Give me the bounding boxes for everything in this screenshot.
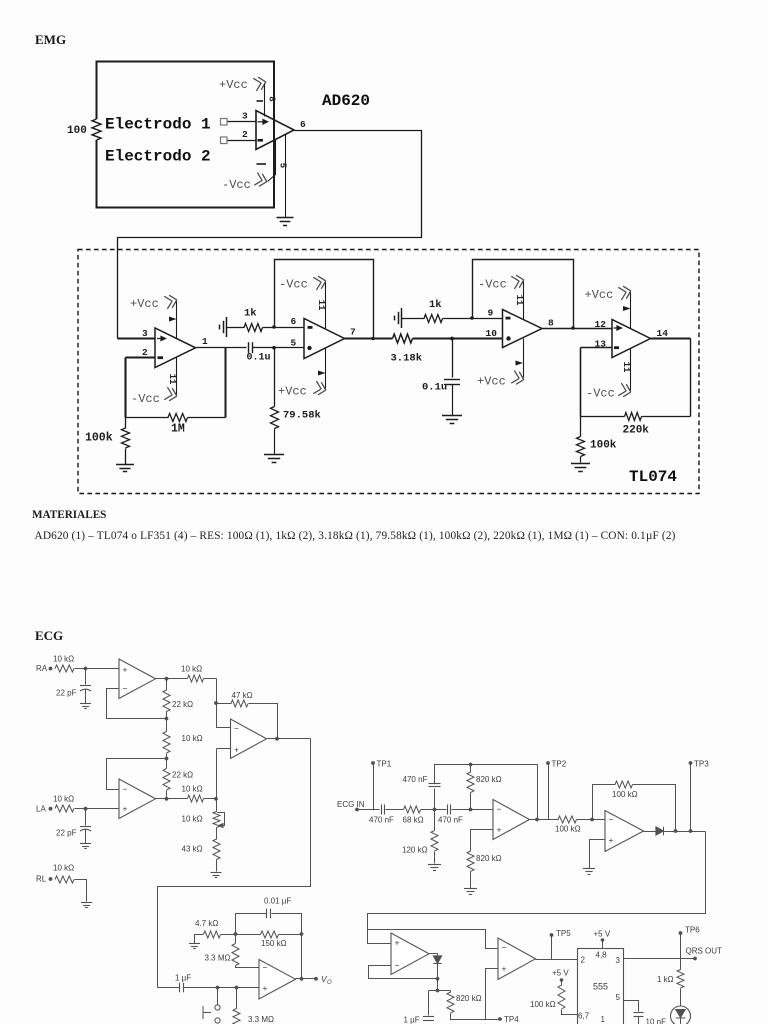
wire ground to 1k U2C [402, 318, 425, 320]
wire cap up to rail [435, 765, 538, 784]
wire feedback to output [633, 785, 676, 832]
svg-text:3.18k: 3.18k [391, 353, 423, 365]
supply pin tick (pin4) [257, 163, 267, 165]
svg-text:555: 555 [593, 982, 608, 992]
svg-text:820 kΩ: 820 kΩ [476, 775, 502, 784]
wire A1 feedback loop [107, 689, 167, 719]
svg-text:10 kΩ: 10 kΩ [53, 655, 74, 664]
svg-text:+: + [609, 835, 614, 845]
svg-text:1M: 1M [171, 423, 185, 436]
svg-text:−: − [123, 684, 128, 694]
op-amp A3 triangle [231, 719, 267, 759]
wire B2 feedback up [593, 785, 616, 820]
wire pin 11 U2C [523, 282, 525, 320]
op-amp U2C triangle [503, 310, 543, 348]
ground (100k) [116, 465, 134, 472]
svg-text:1 µF: 1 µF [175, 974, 191, 983]
resistor 10k RA [55, 665, 74, 672]
wire 1k to pin6 [263, 327, 305, 329]
junction peak node [436, 989, 440, 993]
wire 820k to TP4 row [451, 1014, 501, 1020]
wire pin13 input [581, 347, 613, 349]
ground (0.1u) [442, 416, 462, 424]
svg-text:220k: 220k [623, 425, 650, 437]
resistor 79.58k [271, 407, 279, 429]
svg-text:79.58k: 79.58k [283, 410, 321, 422]
wire to 100k [125, 418, 127, 429]
resistor 43k [213, 839, 220, 860]
svg-text:−: − [234, 724, 239, 734]
wire pin 11 U2A [176, 358, 178, 395]
wire pot branch [216, 799, 218, 812]
switch terminal lower [215, 1018, 220, 1023]
svg-text:+Vcc: +Vcc [278, 385, 307, 399]
op-amp U2D triangle [612, 320, 651, 358]
svg-text:820 kΩ: 820 kΩ [476, 854, 502, 863]
ground (B2) [583, 869, 595, 875]
LED D3 [671, 1006, 691, 1024]
wire chain 2 [166, 754, 168, 769]
op-amp B1 triangle [493, 800, 530, 840]
svg-text:1 kΩ: 1 kΩ [657, 975, 674, 984]
svg-text:11: 11 [316, 300, 326, 311]
wire +5V to 100k [561, 981, 563, 986]
supply chevrons +Vcc U2C [511, 371, 525, 386]
pot wiper arm [217, 813, 225, 826]
supply tick U2D + [623, 306, 631, 311]
wire RL to ground [75, 880, 87, 902]
svg-text:+: + [502, 964, 507, 974]
resistor 120k [431, 831, 438, 852]
wire U2B output [345, 337, 393, 339]
ground (LA filter) [80, 844, 91, 849]
wire pin 11 U2B [325, 283, 327, 330]
svg-text:1k: 1k [244, 308, 257, 320]
resistor 3.3M to inverting [232, 944, 239, 966]
op-amp A4 triangle [259, 960, 296, 1000]
supply tick U2C + [516, 361, 524, 366]
resistor 10k LA [55, 805, 74, 812]
resistor 1k (U2B bias) [244, 324, 263, 332]
svg-text:150 kΩ: 150 kΩ [261, 939, 287, 948]
junction 150k right [300, 932, 304, 936]
svg-text:470 nF: 470 nF [403, 775, 428, 784]
svg-text:-Vcc: -Vcc [131, 392, 160, 406]
wire 1k to pin9 [443, 318, 503, 320]
svg-text:10 kΩ: 10 kΩ [53, 864, 74, 873]
dashed enclosure TL074 board [78, 250, 699, 494]
U2D inverting mark [614, 346, 619, 349]
svg-text:+5 V: +5 V [594, 930, 611, 939]
wire cap to ground LA [85, 830, 87, 844]
junction U2B output/feedback [371, 337, 375, 341]
svg-text:4,8: 4,8 [596, 951, 608, 960]
svg-text:100k: 100k [85, 432, 113, 445]
wire AD620 output to filter stage [118, 131, 422, 339]
wire node to 100k [580, 417, 582, 437]
junction chain upper [165, 717, 169, 721]
wire cap to right rail [272, 914, 302, 935]
wire summing node up [216, 749, 218, 799]
svg-text:+5 V: +5 V [552, 969, 569, 978]
ground (120k) [428, 865, 441, 871]
op-amp U2A triangle [155, 328, 196, 368]
resistor 100 (electrode impedance) [92, 119, 101, 140]
wire chain 3 [166, 791, 168, 800]
svg-text:RL: RL [36, 875, 47, 884]
LA input dot [49, 807, 53, 811]
svg-text:3.3 MΩ: 3.3 MΩ [205, 954, 231, 963]
test point TP5 wire [551, 936, 553, 960]
svg-text:22 pF: 22 pF [56, 829, 77, 838]
junction pin9 node [470, 316, 474, 320]
resistor 10k (A2 out) [188, 795, 204, 802]
wire 100k to ground U2D [580, 457, 582, 463]
svg-text:-Vcc: -Vcc [586, 387, 615, 401]
svg-text:68 kΩ: 68 kΩ [403, 816, 424, 825]
resistor 3.18k series [393, 334, 413, 343]
sideways ground (1k bias U2C) [395, 308, 402, 328]
svg-text:3: 3 [142, 328, 148, 339]
resistor 22k upper [163, 690, 170, 712]
TP5 dot [550, 933, 554, 937]
test point TP3 wire [690, 764, 692, 832]
svg-text:−: − [395, 961, 400, 971]
ground (43k) [211, 873, 222, 878]
svg-text:+Vcc: +Vcc [219, 78, 248, 92]
wire A4 output [296, 978, 317, 980]
svg-text:11: 11 [167, 374, 177, 385]
svg-text:820 kΩ: 820 kΩ [456, 994, 482, 1003]
op-amp U2B triangle [304, 319, 345, 359]
svg-text:Electrodo 2: Electrodo 2 [105, 148, 211, 166]
electrode box outline [97, 62, 275, 208]
svg-text:4.7 kΩ: 4.7 kΩ [195, 919, 218, 928]
wire B2 output to diode [644, 831, 657, 833]
junction highpass node [433, 808, 437, 812]
svg-text:0.01 µF: 0.01 µF [264, 897, 291, 906]
svg-text:2: 2 [142, 347, 148, 358]
resistor 4.7k [204, 931, 221, 938]
svg-text:+: + [263, 983, 268, 993]
svg-text:+: + [395, 938, 400, 948]
wire LA node to cap [85, 809, 87, 826]
svg-text:+: + [123, 804, 128, 814]
wire 10nF down [638, 1017, 640, 1024]
svg-text:6: 6 [300, 119, 306, 130]
wire cap to ground RA [85, 690, 87, 704]
ground (820k bias) [464, 889, 477, 895]
wire ECG IN [358, 809, 380, 811]
U2B inverting mark [308, 326, 313, 329]
svg-text:7: 7 [350, 327, 356, 338]
svg-text:LA: LA [36, 805, 46, 814]
resistor 820k bias [467, 851, 474, 872]
svg-text:−: − [123, 784, 128, 794]
supply chevrons -Vcc U2A [164, 387, 178, 402]
wire B4 + input [486, 969, 499, 1020]
wire 555 pin5 [624, 1001, 639, 1012]
svg-text:TP6: TP6 [685, 926, 700, 935]
op-amp B2 triangle [605, 811, 644, 852]
wire pin2 to amp [228, 140, 257, 142]
svg-text:100 kΩ: 100 kΩ [555, 825, 581, 834]
junction pin6 node [272, 325, 276, 329]
svg-text:+: + [123, 665, 128, 675]
capacitor 470nF input [382, 805, 385, 815]
resistor 3.3M lower [233, 1009, 240, 1024]
svg-text:ECG IN: ECG IN [337, 800, 365, 809]
svg-text:Electrodo 1: Electrodo 1 [105, 116, 211, 134]
wire ground to 4.7k [195, 935, 204, 944]
svg-text:ECG: ECG [35, 628, 63, 643]
wire branch to B4 inverting [368, 930, 499, 949]
svg-text:100 kΩ: 100 kΩ [530, 1000, 556, 1009]
svg-text:1 µF: 1 µF [404, 1016, 420, 1024]
test point TP6 wire [680, 934, 682, 970]
wire 47k to output [249, 704, 278, 739]
svg-text:2: 2 [581, 956, 586, 965]
svg-text:22 kΩ: 22 kΩ [172, 771, 193, 780]
svg-text:TP4: TP4 [504, 1015, 519, 1024]
switch actuator mark [203, 1006, 211, 1019]
svg-text:TP3: TP3 [694, 760, 709, 769]
wire 3.3M upper [235, 935, 237, 944]
svg-text:10 kΩ: 10 kΩ [181, 665, 202, 674]
supply chevrons +Vcc U2B [313, 381, 327, 396]
junction B1 output [535, 818, 539, 822]
junction A1 output [165, 677, 169, 681]
svg-text:8: 8 [267, 96, 277, 101]
svg-text:100: 100 [67, 125, 87, 137]
svg-text:12: 12 [595, 319, 607, 330]
supply chevrons -Vcc AD620 [254, 173, 268, 188]
svg-text:470 nF: 470 nF [438, 816, 463, 825]
svg-text:3.3 MΩ: 3.3 MΩ [248, 1015, 274, 1024]
terminal pad pin 2 [221, 137, 228, 144]
wire pin2 input U2A [126, 356, 156, 358]
wire B2 + to ground [590, 840, 606, 869]
wire node down to cap [452, 339, 454, 378]
wire A2 feedback loop [107, 759, 167, 790]
wire feedback upper rail [236, 914, 267, 935]
wire output branch down to feedback [225, 348, 227, 418]
junction 3.3M branch [235, 986, 239, 990]
wire right rail down [301, 935, 303, 979]
svg-text:43 kΩ: 43 kΩ [182, 845, 203, 854]
resistor 100k to ground [122, 428, 130, 448]
wire RA to op-amp [75, 668, 120, 670]
wire node up to cap [434, 789, 436, 810]
wire feedback row right [188, 417, 226, 419]
svg-text:11: 11 [514, 295, 524, 306]
svg-text:1: 1 [202, 336, 208, 347]
resistor 10k (A1 out) [188, 675, 204, 682]
AD620 inverting input mark [258, 139, 264, 142]
svg-text:1: 1 [601, 1015, 606, 1024]
svg-text:5: 5 [291, 338, 297, 349]
wire A3 output [267, 738, 311, 740]
wire +Vcc pin U2A [176, 302, 178, 339]
TP2 dot [546, 761, 550, 765]
TP4 dot [498, 1017, 502, 1021]
U2A inverting mark [158, 356, 164, 359]
wire peak node row [429, 990, 451, 992]
junction loop/diode [436, 977, 440, 981]
svg-text:22 kΩ: 22 kΩ [172, 700, 193, 709]
wire feedback row [126, 417, 169, 419]
wire cap to ground [452, 385, 454, 416]
supply chevrons -Vcc U2D [618, 383, 632, 398]
wire inverting node down [124, 358, 126, 418]
svg-text:TP2: TP2 [552, 760, 567, 769]
svg-text:470 nF: 470 nF [369, 816, 394, 825]
capacitor 22pF RA [80, 686, 91, 692]
output terminal Vo dot [314, 977, 318, 981]
svg-text:10 kΩ: 10 kΩ [182, 815, 203, 824]
resistor 68k [404, 806, 421, 813]
sideways ground (1k bias U2B) [220, 317, 227, 337]
wire pin3 to amp [228, 121, 257, 123]
resistor 100k trigger [558, 985, 565, 1009]
svg-text:0.1u: 0.1u [247, 353, 271, 364]
test point TP2 wire [548, 764, 550, 820]
wire 555 output [624, 958, 696, 960]
wire pin5 node down [274, 348, 276, 407]
wire A3 noninverting path [217, 748, 231, 750]
svg-text:QRS OUT: QRS OUT [686, 947, 723, 956]
svg-text:TP5: TP5 [556, 929, 571, 938]
IC 555 timer box [578, 949, 624, 1024]
svg-text:−: − [609, 815, 614, 825]
capacitor 22pF LA [80, 827, 91, 832]
svg-text:TL074: TL074 [629, 468, 677, 486]
svg-text:10 kΩ: 10 kΩ [53, 795, 74, 804]
svg-text:5: 5 [616, 993, 621, 1002]
wire +Vcc supply pin [264, 84, 266, 117]
svg-text:-Vcc: -Vcc [478, 278, 507, 292]
capacitor 10nF [634, 1013, 644, 1017]
wire -Vcc supply pin [268, 140, 276, 182]
junction pin5 node [272, 346, 276, 350]
potentiometer 10k [213, 812, 220, 828]
junction chain lower [165, 757, 169, 761]
svg-text:AD620: AD620 [322, 92, 370, 110]
svg-text:+: + [497, 825, 502, 835]
wire U2C output to pin12 [543, 328, 613, 330]
svg-text:47 kΩ: 47 kΩ [232, 691, 253, 700]
wire 820k bias to ground [470, 872, 472, 889]
svg-text:RA: RA [36, 664, 48, 673]
resistor 1k (U2C bias) [424, 315, 443, 323]
wire pin 11 U2D [630, 349, 632, 391]
junction TP3 node [689, 829, 693, 833]
junction 150k left [234, 932, 238, 936]
resistor 220k feedback [625, 413, 642, 421]
op-amp AD620 U1 triangle [256, 111, 294, 150]
svg-text:9: 9 [488, 308, 494, 319]
capacitor 470nF series2 [448, 805, 451, 815]
diode D1 [656, 827, 664, 835]
feedback loop wire U2B [275, 260, 374, 339]
resistor 47k feedback [231, 700, 248, 707]
U2C inverting mark [506, 317, 511, 320]
op-amp B3 triangle [391, 933, 429, 975]
op-amp B4 triangle [498, 938, 536, 980]
RL input dot [49, 877, 53, 881]
supply chevrons -Vcc U2C [511, 274, 525, 289]
resistor 10k RL [55, 876, 74, 883]
U2C noninverting mark [506, 336, 510, 340]
capacitor 470nF feedback [429, 784, 441, 787]
svg-text:22 pF: 22 pF [56, 689, 77, 698]
wire B3 inverting loop [369, 966, 438, 979]
svg-text:+Vcc: +Vcc [130, 297, 159, 311]
wire 68k to node [421, 809, 447, 811]
+5V dot (555) [601, 938, 605, 942]
wire A2 output [156, 798, 188, 800]
wire +Vcc pin U2C [523, 339, 525, 378]
wire B1 + input [471, 830, 494, 852]
svg-text:10 nF: 10 nF [646, 1018, 667, 1024]
svg-text:8: 8 [548, 318, 554, 329]
wire +Vcc pin U2D [630, 293, 632, 329]
svg-text:10: 10 [486, 328, 498, 339]
wire +Vcc pin U2B [325, 349, 327, 389]
wire A3 output down to notch stage [158, 739, 311, 988]
junction summing node [214, 797, 218, 801]
svg-text:1k: 1k [429, 299, 442, 311]
supply chevrons -Vcc U2B [313, 275, 327, 290]
QRS OUT dot [693, 957, 697, 961]
wire feedback row right U2D [642, 416, 691, 418]
op-amp A2 triangle [119, 779, 156, 819]
wire 120k branch [434, 810, 436, 831]
TP1 dot [371, 761, 375, 765]
svg-text:100k: 100k [590, 440, 617, 452]
ECG IN dot [355, 808, 359, 812]
wire feedback row U2D [581, 416, 625, 418]
junction U2C output/feedback [571, 326, 575, 330]
wire 120k to ground [434, 852, 436, 864]
switch terminal upper [215, 1005, 220, 1010]
wire RA node to cap [85, 669, 87, 685]
wire 3.3M to inverting input [236, 966, 260, 968]
ground (RA filter) [80, 704, 91, 709]
resistor 150k [261, 931, 279, 938]
wire 3.3M lower branch [236, 988, 238, 1009]
wire 10k to node [204, 678, 217, 680]
svg-text:6,7: 6,7 [578, 1012, 590, 1021]
svg-text:10 kΩ: 10 kΩ [182, 734, 203, 743]
junction switch branch [216, 986, 220, 990]
capacitor 0.01uF feedback [267, 909, 271, 919]
junction feedback/diode [674, 829, 678, 833]
svg-text:-Vcc: -Vcc [222, 178, 251, 192]
wire cap to pin5 [253, 347, 305, 349]
AD620 noninverting input arrow [258, 120, 268, 124]
wire long run to comparator section [368, 832, 706, 944]
junction 47k tap [214, 701, 218, 705]
svg-text:AD620 (1) – TL074 o LF351 (4): AD620 (1) – TL074 o LF351 (4) – RES: 100… [35, 530, 676, 542]
svg-text:6: 6 [291, 316, 297, 327]
junction LA filter [84, 807, 88, 811]
junction A3 output [275, 737, 279, 741]
U2B noninverting mark [307, 346, 311, 350]
wire output down to feedback [690, 339, 692, 417]
supply chevrons +Vcc U2A [164, 294, 178, 309]
wire chain [166, 712, 168, 732]
